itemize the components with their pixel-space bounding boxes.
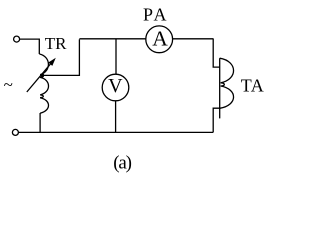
svg-text:V: V [108,75,123,97]
svg-text:TR: TR [45,34,67,53]
voltmeter V body [102,74,129,101]
terminal top-left [14,36,20,42]
svg-text:PA: PA [143,4,169,24]
wire top rail from ammeter to right corner [173,38,214,40]
current transformer TA top lead wire [213,39,220,67]
svg-text:TA: TA [241,76,264,96]
TA bottom lead wire [213,108,220,132]
bottom rail wire [18,131,213,133]
TR wiper arrow [27,64,51,92]
wire voltmeter branch bottom [115,101,117,133]
wire voltmeter branch top [115,39,117,75]
terminal bottom-left [12,129,18,135]
ammeter A body [146,26,173,53]
wire wiper to top rail [42,39,79,75]
autotransformer TR winding [39,54,48,113]
junction dot wiper tap [41,73,45,77]
wire from top terminal to TR top [20,39,40,54]
svg-text:(a): (a) [113,153,131,174]
svg-text:~: ~ [4,75,13,94]
TR bottom lead wire [39,113,41,132]
svg-text:A: A [152,26,168,50]
wire top rail to ammeter [79,38,146,40]
current transformer TA winding [219,58,221,118]
